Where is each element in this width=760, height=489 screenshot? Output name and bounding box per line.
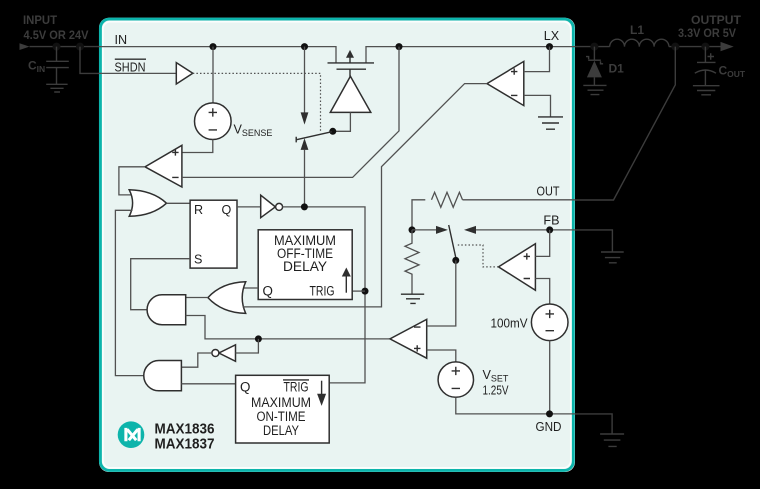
op-amp U1 (current-limit comparator): [145, 145, 182, 187]
and-gate G4 (AND2, facing left): [144, 361, 182, 391]
svg-text:Q: Q: [222, 203, 232, 217]
or-gate G2 (facing left): [208, 282, 246, 314]
node divider: [409, 226, 416, 233]
svg-text:3.3V OR 5V: 3.3V OR 5V: [678, 26, 736, 40]
wire G1 bottom input from AND2: [115, 210, 144, 375]
output arrow: [721, 42, 734, 51]
node inverter tap: [255, 335, 262, 342]
wire FB pin: [550, 229, 575, 231]
svg-text:SHDN: SHDN: [115, 60, 146, 74]
svg-text:S: S: [194, 252, 202, 266]
source VSENSE: [212, 47, 214, 103]
wire SHDN drop: [80, 47, 99, 74]
svg-text:OUTPUT: OUTPUT: [691, 13, 742, 27]
flip-flop U5 (RS latch): [190, 200, 237, 268]
diode D1 (schottky): [593, 47, 595, 61]
svg-text:Q: Q: [240, 380, 250, 395]
node blade: [452, 257, 459, 264]
wire input rail: [30, 46, 100, 48]
op-amp U2 (zero-cross comparator near LX): [487, 61, 524, 105]
buffer SHDN: [99, 72, 176, 74]
node current-limit tap: [396, 43, 403, 50]
node LX comparator tap: [546, 43, 553, 50]
ground (GND pin): [600, 434, 624, 446]
capacitor COUT (polarized): [697, 47, 716, 86]
op-amp U4 (error comparator): [390, 319, 427, 358]
or-gate G1: [129, 190, 166, 217]
sense arrow down: [304, 47, 306, 113]
inverter G5: [261, 195, 276, 218]
wire U4 plus input: [427, 350, 456, 362]
node LX/D1: [590, 43, 598, 51]
delay U7 (maximum on-time): [236, 375, 330, 443]
source 100mV: [531, 304, 568, 341]
wire U2 output long: [243, 84, 488, 307]
op-amp U3 (FB comparator): [499, 244, 536, 291]
svg-text:D1: D1: [609, 62, 625, 76]
node output: [671, 43, 679, 51]
wire AND2 lower input: [181, 383, 235, 385]
wire S input from AND1: [131, 259, 190, 310]
svg-text:ON-TIME: ON-TIME: [257, 409, 306, 424]
svg-text:1.25V: 1.25V: [483, 383, 509, 397]
wire shutdown dotted control: [193, 73, 321, 130]
node COUT tap: [701, 43, 709, 51]
and-gate G3 (AND1, facing left): [147, 295, 186, 325]
wire VSENSE to comparator: [182, 140, 213, 153]
wire IN rail right of FET: [366, 47, 575, 63]
arrow trig falling: [321, 381, 323, 395]
capacitor CIN: [46, 47, 69, 85]
svg-text:MAX1837: MAX1837: [155, 436, 215, 453]
svg-text:L1: L1: [630, 23, 644, 37]
gate driver buffer: [330, 76, 371, 112]
svg-text:Q: Q: [263, 283, 273, 298]
resistor R1: [431, 192, 462, 207]
node off-time trig: [362, 288, 369, 295]
wire U3 minus input: [535, 279, 549, 305]
wire driver to switch: [333, 112, 351, 131]
wire OUT feedback diagonal: [575, 47, 675, 200]
wire U1 output to OR gate: [119, 167, 145, 195]
wire LX to coil: [575, 46, 610, 48]
ground (U2): [538, 117, 563, 129]
svg-text:TRIG: TRIG: [310, 283, 335, 298]
ground (FB): [601, 252, 624, 263]
ground (R2): [401, 294, 424, 303]
svg-text:DELAY: DELAY: [283, 259, 327, 274]
wire FB to ground: [575, 230, 612, 252]
wire G2 output to AND1: [186, 297, 208, 299]
chopper left arrow: [476, 229, 550, 231]
input arrow: [20, 43, 30, 50]
node switch: [329, 128, 336, 135]
ground (D1): [583, 85, 606, 94]
wire off-time Q to OR2: [243, 287, 259, 289]
ground (CIN): [46, 84, 67, 92]
wire U4 minus input from blade: [427, 260, 456, 326]
chopper right arrow: [412, 229, 437, 231]
inductor L1: [610, 39, 669, 46]
ground (COUT): [693, 86, 720, 95]
node SHDN tap: [76, 43, 84, 51]
wire GND to ground: [575, 414, 612, 434]
wire coil to output: [669, 46, 721, 48]
inverter G6 (facing left): [219, 345, 236, 362]
transistor Q1 (PMOS switch): [328, 62, 375, 64]
svg-text:INPUT: INPUT: [23, 13, 58, 27]
delay U6 (maximum off-time): [258, 230, 352, 300]
source VSET: [438, 362, 473, 397]
svg-text:R: R: [194, 203, 203, 217]
resistor R2: [405, 230, 419, 294]
node gate drive: [301, 203, 308, 210]
wire VSET to GND pin: [456, 397, 575, 414]
node GND: [546, 410, 553, 417]
logo Maxim: [118, 421, 145, 448]
node sense arrow tap: [301, 43, 308, 50]
wire G1 output to R: [167, 202, 191, 204]
wire AND1 lower input: [186, 316, 390, 339]
svg-text:100mV: 100mV: [491, 317, 529, 331]
svg-text:OUT: OUT: [537, 184, 560, 198]
wire R1 to node: [412, 200, 425, 230]
wire U3 output dotted control: [458, 245, 499, 267]
wire current-limit minus input: [182, 47, 399, 178]
svg-text:LX: LX: [544, 29, 560, 43]
wire OUT pin: [463, 199, 576, 201]
svg-text:IN: IN: [115, 33, 128, 47]
switch blade (zero-cross select): [296, 132, 332, 143]
wire inverter output bus: [282, 207, 365, 383]
svg-text:TRIG: TRIG: [284, 380, 309, 395]
node CIN tap: [53, 43, 61, 51]
wire 100mV to GND rail: [549, 341, 551, 414]
svg-text:MAXIMUM: MAXIMUM: [251, 395, 311, 410]
wire trig stub: [352, 290, 365, 292]
wire Q to inverter: [237, 206, 261, 208]
wire inverter input: [236, 339, 259, 353]
wire U3 plus input: [535, 230, 549, 257]
svg-text:DELAY: DELAY: [263, 423, 299, 438]
node FB: [546, 226, 553, 233]
node Vsense tap: [210, 43, 217, 50]
wire U2 plus input: [524, 47, 550, 72]
sense arrow up + wire to logic: [301, 138, 309, 150]
wire inverter output to AND2: [181, 353, 212, 367]
svg-text:4.5V OR 24V: 4.5V OR 24V: [24, 28, 89, 42]
wire U2 minus to ground: [524, 95, 551, 117]
svg-text:FB: FB: [543, 214, 559, 228]
wire IN rail left: [99, 47, 336, 63]
svg-text:GND: GND: [536, 420, 562, 434]
chopper blade: [449, 225, 457, 260]
arrow trig rising: [345, 276, 347, 293]
